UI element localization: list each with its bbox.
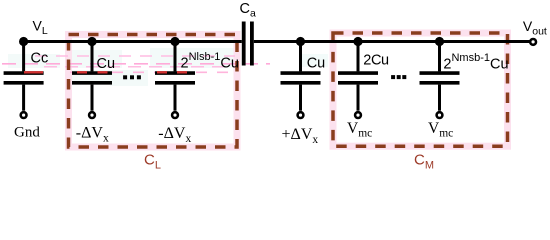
dashed box CM	[333, 33, 508, 146]
capacitor 2^Nlsb-1 Cu branch (b3)	[155, 42, 195, 119]
svg-text:2Cu: 2Cu	[363, 53, 389, 69]
capacitor 2^Nmsb-1 Cu branch (b6)	[420, 42, 460, 119]
capacitor Cu branch (b4)	[281, 42, 321, 119]
main wire left segment	[24, 40, 242, 43]
svg-text:Cu: Cu	[307, 55, 326, 71]
node dot b3	[170, 37, 179, 46]
output terminal Vout	[530, 39, 536, 45]
ellipsis left	[123, 75, 141, 79]
node dot b5	[353, 37, 362, 46]
pink halo of CL box	[69, 35, 238, 148]
svg-text:Cc: Cc	[31, 50, 49, 66]
pink artifact dashed line 2b	[44, 66, 236, 68]
capacitor 2Cu branch (b5)	[338, 42, 378, 119]
dashed box CL	[69, 35, 238, 148]
pink artifact dashed line 3	[70, 71, 236, 73]
ellipsis right	[391, 75, 406, 79]
main wire right segment	[254, 40, 530, 43]
node dot b4	[296, 37, 305, 46]
pink halo of CM box	[333, 33, 508, 146]
node dot b2	[87, 37, 96, 46]
node VL dot	[19, 37, 28, 46]
red artifact dashes on plates	[24, 71, 187, 73]
capacitor Cc branch	[4, 42, 44, 119]
svg-text:Cu: Cu	[97, 56, 116, 72]
pink artifact dashed line 2	[2, 63, 270, 65]
capacitor Cu branch (b2)	[72, 42, 112, 119]
capacitor Ca (series)	[242, 22, 254, 66]
pink artifact dashed line 1	[35, 55, 235, 57]
svg-text:Gnd: Gnd	[14, 125, 40, 141]
node dot b6	[435, 37, 444, 46]
cyan artifact patches	[8, 48, 328, 86]
